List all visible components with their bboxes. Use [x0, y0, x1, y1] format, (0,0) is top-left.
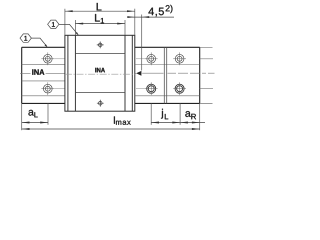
INA marking on rail	[32, 69, 44, 74]
extension hole col1	[47, 103, 49, 124]
rail hole top col2	[147, 54, 156, 63]
dimension L1 extension left	[74, 20, 76, 35]
lube port bottom	[97, 100, 104, 107]
carriage centerline	[65, 73, 135, 75]
dimension aR arrow right	[192, 122, 200, 124]
hole row centerline stubs right part	[136, 59, 145, 89]
lube port top	[97, 42, 104, 49]
rail left part outline	[22, 47, 65, 103]
rail hole bottom col2	[147, 84, 156, 93]
rail centerline left	[20, 72, 65, 74]
dimension 4,5 arrow left	[127, 16, 135, 18]
dimension 4,5 label	[148, 5, 172, 17]
dimension L line	[65, 10, 135, 12]
extension rail right end bottom	[199, 103, 201, 130]
dimension L label	[97, 3, 102, 10]
carriage end seal line right	[131, 35, 133, 111]
carriage end cap line left	[74, 35, 76, 111]
hole row centerline stubs left part	[54, 59, 65, 89]
dimension jL label	[161, 109, 168, 119]
balloon 1 left hexagon	[20, 34, 31, 42]
balloon 1 top leader	[59, 24, 78, 34]
dimension lmax label	[114, 116, 131, 124]
carriage end seal line left	[67, 35, 69, 111]
dimension 4,5 extension	[141, 15, 143, 71]
rail hole top col3	[175, 54, 184, 63]
carriage body lower line	[75, 91, 125, 92]
dimension L extension left	[64, 9, 66, 36]
rail centerline right dash-dot	[135, 72, 215, 74]
carriage end cap line right	[124, 35, 126, 111]
dimension L1 arrow right	[117, 23, 125, 25]
dimension L1 line	[75, 23, 125, 25]
rail end stubs right	[200, 47, 213, 103]
rail hole top-left	[43, 54, 52, 63]
rail right part outline	[135, 47, 200, 103]
rail break line 2	[166, 47, 168, 103]
dimension jL aR line	[151, 122, 205, 124]
dimension 4,5 arrow right	[142, 16, 150, 18]
extension hole col3	[179, 103, 181, 124]
dimension aL arrow left	[22, 122, 30, 124]
rail groove line right upper	[135, 64, 200, 66]
balloon 1 top hexagon	[48, 20, 59, 28]
dimension lmax arrow left	[22, 128, 30, 130]
dimension lmax line	[22, 128, 200, 130]
dimension aL arrow right	[40, 122, 48, 124]
balloon 1 left leader	[31, 38, 46, 46]
dimension L arrow left	[65, 10, 73, 12]
dimension aR arrow left	[180, 122, 188, 124]
lube nipple right end	[136, 71, 141, 76]
dimension aR label	[185, 111, 196, 119]
rail groove line upper left	[22, 64, 65, 66]
dimension jL arrow left	[151, 122, 159, 124]
rail hole bottom-left	[43, 84, 52, 93]
rail break line 1	[163, 47, 165, 103]
INA marking on carriage	[95, 68, 105, 72]
rail hole bottom col3	[175, 84, 184, 93]
dimension lmax arrow right	[192, 128, 200, 130]
dimension L extension right	[134, 9, 136, 36]
extension rail left end bottom	[21, 103, 23, 130]
rail groove line lower left	[22, 80, 65, 82]
carriage outline	[65, 35, 135, 111]
dimension aL line	[22, 122, 48, 124]
dimension aL label	[28, 110, 37, 117]
dimension jL arrow right	[172, 122, 180, 124]
dimension L arrow right	[127, 10, 135, 12]
dimension L1 arrow left	[75, 23, 83, 25]
carriage body upper line	[75, 54, 125, 55]
dimension L1 extension right	[124, 20, 126, 35]
rail lower line right	[135, 95, 200, 97]
dimension L1 label	[95, 14, 104, 23]
rail lower line left	[22, 95, 65, 97]
extension hole col2	[150, 103, 152, 124]
dimension 4,5 line	[128, 16, 174, 18]
